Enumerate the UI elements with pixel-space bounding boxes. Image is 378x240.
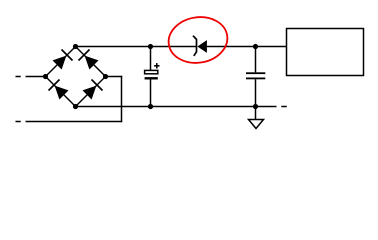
wire: DC- rail continuation dash (right): [281, 106, 287, 108]
wire: DC- bottom rail: [76, 106, 277, 108]
node: bridge AC left junction: [43, 74, 48, 79]
wire: AC input 1 dash (left): [16, 76, 21, 78]
node: bridge DC+ top junction: [73, 44, 78, 49]
wire: AC input 2 dash (bottom left): [16, 121, 21, 123]
capacitor C2 output cap: [246, 47, 265, 120]
wire: DC+ top rail, zener anode to load box: [207, 46, 287, 48]
wire: DC+ top rail, bridge to zener cathode: [76, 46, 197, 48]
wire: AC input 1 lead to bridge left node: [26, 76, 46, 78]
load block (regulator/load box): [287, 29, 364, 76]
diode D3 bridge bottom-left (anode: DC- bottom node, cathode: AC left node): [46, 77, 76, 107]
capacitor C1 electrolytic filter cap (+): [145, 47, 160, 107]
node: C1 bottom junction on DC- rail: [148, 104, 153, 109]
ground symbol: [249, 120, 264, 129]
wire: AC input 2, bridge right node to corner: [106, 76, 123, 78]
diode D2 bridge top-right (anode: AC right node, cathode: DC+ top node): [76, 47, 106, 77]
node: bridge DC- bottom junction: [73, 104, 78, 109]
annotation: red ellipse highlighting zener diode: [165, 13, 230, 67]
wire: AC input 2 vertical drop (crosses DC- rail, no connection): [121, 76, 123, 122]
node: C2 top junction on DC+ rail: [253, 44, 258, 49]
diode D5 zener, series in DC+ rail (pointing left), circled in red: [193, 36, 207, 56]
diode D4 bridge bottom-right (anode: DC- bottom node, cathode: AC right node): [76, 77, 106, 107]
node: C2/ground junction on DC- rail: [253, 104, 258, 109]
node: bridge AC right junction: [103, 74, 108, 79]
node: C1 top junction on DC+ rail: [148, 44, 153, 49]
wire: AC input 2 bottom run: [26, 121, 123, 123]
diode D1 bridge top-left (anode: AC left node, cathode: DC+ top node): [46, 47, 76, 77]
